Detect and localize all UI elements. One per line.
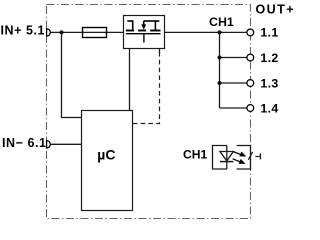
wire branch to 1.4: [220, 107, 248, 109]
LED D1 cathode bar: [220, 161, 234, 163]
transistor Q1 channel segments: [126, 30, 161, 32]
wire MOSFET gate stub below box: [159, 49, 161, 54]
terminal 1.4: [247, 105, 254, 112]
terminal IN+ 5.1: [47, 29, 51, 36]
terminal 1.1: [247, 29, 254, 36]
MOSFET switch box U1: [124, 16, 165, 49]
LED D1 emission arrow 2: [233, 159, 246, 164]
LED CH1 indicator group: [213, 146, 261, 170]
LED D1 triangle: [220, 152, 233, 161]
dashed control line uC to MOSFET gate: [133, 52, 160, 124]
wire switch to terminal 1.1: [165, 31, 248, 33]
svg-text:1.4: 1.4: [260, 101, 278, 115]
device boundary dash-dot border: [47, 5, 251, 219]
light outlet tick: [259, 153, 261, 159]
wire IN- to uC: [50, 143, 81, 145]
transistor Q1 gate: [126, 34, 161, 43]
transistor Q1 source lead: [144, 20, 160, 22]
svg-text:1.1: 1.1: [260, 26, 278, 40]
junction node bus 1.2: [218, 56, 222, 60]
svg-text:1.3: 1.3: [260, 76, 278, 90]
svg-text:1.2: 1.2: [260, 51, 278, 65]
LED D1 emission arrow 1: [234, 152, 247, 157]
wire LED right bracket: [237, 146, 251, 170]
svg-text:IN− 6.1: IN− 6.1: [2, 136, 47, 150]
junction node bus 1.3: [218, 81, 222, 85]
junction node bus 1.1: [218, 30, 222, 34]
svg-text:µC: µC: [97, 147, 115, 163]
svg-text:CH1: CH1: [209, 15, 234, 29]
wire IN+ branch down to uC: [62, 32, 82, 117]
terminal 1.3: [247, 80, 254, 87]
wire branch to 1.3: [220, 82, 248, 84]
wire main line IN+ to fuse to switch: [50, 32, 247, 144]
svg-text:CH1: CH1: [183, 147, 207, 161]
junction node at IN+ branch: [60, 30, 64, 34]
wire MOSFET left leg to uC: [129, 49, 131, 111]
svg-text:IN+ 5.1: IN+ 5.1: [1, 24, 46, 38]
wire LED axis: [226, 146, 228, 170]
wire LED left bracket: [213, 146, 228, 170]
fuse F1: [83, 28, 107, 38]
transistor Q1 substrate arrow shaft: [143, 21, 145, 25]
transistor Q1 drain lead: [127, 21, 159, 30]
svg-text:OUT+: OUT+: [256, 3, 296, 17]
terminal IN- 6.1: [47, 141, 51, 148]
terminal 1.2: [247, 54, 254, 61]
microcontroller uC box: [82, 111, 133, 211]
wire branch to 1.2: [220, 57, 248, 59]
light outlet dash: [255, 156, 259, 158]
lens slash on housing: [248, 152, 252, 160]
wire OUT bus vertical: [219, 32, 221, 108]
transistor Q1 substrate arrowhead: [141, 24, 146, 29]
